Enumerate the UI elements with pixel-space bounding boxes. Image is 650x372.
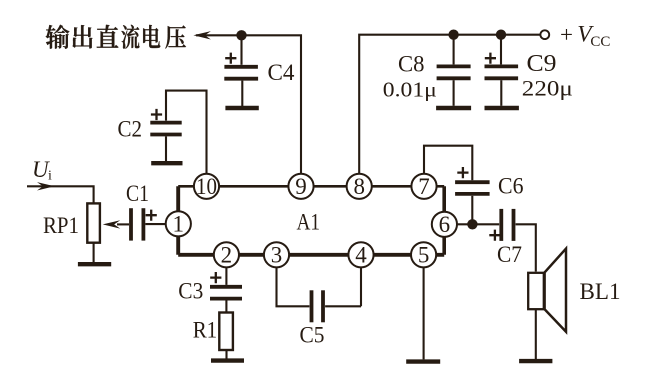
pin 1 xyxy=(166,211,191,236)
speaker BL1 xyxy=(528,249,620,332)
wire speaker to ground xyxy=(535,310,537,359)
capacitor C8 with value 0.01u xyxy=(383,35,471,106)
junction dot above C8 xyxy=(448,30,458,40)
pin 10 xyxy=(194,174,219,199)
svg-text:RP1: RP1 xyxy=(43,213,79,239)
svg-text:5: 5 xyxy=(418,242,430,267)
junction dot above C4 xyxy=(236,30,246,40)
ground under C2 xyxy=(151,161,182,165)
svg-text:C7: C7 xyxy=(497,242,522,268)
wire Vcc rail to pin 8 xyxy=(359,35,540,174)
wire C7 to speaker xyxy=(516,224,536,271)
svg-text:10: 10 xyxy=(196,174,217,199)
wire C1 to pin 1 xyxy=(145,223,166,225)
wire RP1 bottom to ground xyxy=(93,243,95,263)
svg-text:4: 4 xyxy=(355,242,367,267)
junction dot above C9 xyxy=(496,30,506,40)
capacitor C7 xyxy=(489,209,522,268)
svg-text:BL1: BL1 xyxy=(580,279,621,305)
svg-text:1: 1 xyxy=(173,211,185,236)
pin 4 xyxy=(348,242,373,267)
ground under C4 xyxy=(225,106,258,110)
svg-text:9: 9 xyxy=(295,174,307,199)
node output DC voltage label (Chinese) xyxy=(46,25,186,49)
pin 5 xyxy=(411,242,436,267)
svg-text:R1: R1 xyxy=(193,318,218,344)
svg-text:+: + xyxy=(560,22,573,47)
pin 8 xyxy=(347,174,372,199)
svg-text:6: 6 xyxy=(439,212,451,237)
svg-text:A1: A1 xyxy=(297,210,321,236)
svg-text:C4: C4 xyxy=(268,60,295,86)
capacitor C9 with value 220u xyxy=(485,35,573,106)
pin 6 xyxy=(432,212,457,237)
svg-text:C1: C1 xyxy=(126,181,149,207)
svg-text:8: 8 xyxy=(353,174,365,199)
pin 7 xyxy=(411,174,436,199)
junction dot pin6/C6 xyxy=(467,219,477,229)
capacitor C6 xyxy=(424,146,524,225)
svg-text:C2: C2 xyxy=(118,116,143,142)
resistor R1 xyxy=(193,313,233,351)
capacitor C5 xyxy=(277,267,362,348)
svg-text:C8: C8 xyxy=(398,52,425,78)
terminal +Vcc xyxy=(540,22,610,50)
svg-text:220μ: 220μ xyxy=(522,75,573,100)
wire top-left with arrow to output label xyxy=(193,31,301,173)
pin 2 xyxy=(214,242,239,267)
wire pin 6 to C7 xyxy=(457,223,499,225)
capacitor C3 xyxy=(178,267,242,312)
pin 9 xyxy=(288,174,313,199)
capacitor C2 xyxy=(118,91,207,174)
wire R1 to ground xyxy=(225,350,227,359)
ground under RP1 xyxy=(78,262,111,266)
svg-text:3: 3 xyxy=(271,242,283,267)
svg-text:C6: C6 xyxy=(498,174,524,200)
ground under R1 xyxy=(211,358,244,362)
pin 3 xyxy=(264,242,289,267)
wire pin 5 to ground xyxy=(423,267,425,359)
node Ui input label xyxy=(32,157,52,184)
wire RP1 wiper arrow xyxy=(103,220,129,228)
capacitor C4 xyxy=(224,35,294,106)
wire input to RP1 top xyxy=(27,182,94,203)
svg-text:i: i xyxy=(48,169,52,184)
svg-text:0.01μ: 0.01μ xyxy=(383,78,437,102)
ground under pin 5 xyxy=(406,359,440,363)
op-amp/IC A1 body xyxy=(178,186,444,255)
ground under C8 xyxy=(436,106,471,110)
svg-text:7: 7 xyxy=(418,174,430,199)
svg-text:C9: C9 xyxy=(527,51,557,77)
svg-text:2: 2 xyxy=(221,242,233,267)
svg-text:C5: C5 xyxy=(300,322,325,348)
svg-text:C3: C3 xyxy=(178,279,203,305)
ground under BL1 xyxy=(519,359,552,363)
ground under C9 xyxy=(485,106,519,110)
svg-text:CC: CC xyxy=(590,34,610,50)
capacitor C1 xyxy=(126,181,157,241)
potentiometer RP1 xyxy=(43,203,100,242)
